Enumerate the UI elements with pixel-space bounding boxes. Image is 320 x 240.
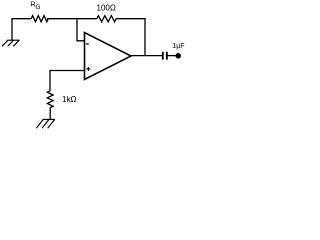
op-amp U1 <box>85 33 132 80</box>
svg-text:1µF: 1µF <box>172 43 184 50</box>
resistor R1 100 ohm <box>97 16 116 22</box>
capacitor C1 1uF <box>163 52 167 60</box>
svg-text:100Ω: 100Ω <box>97 3 116 12</box>
ground GND2 (bottom) <box>36 119 55 128</box>
wire: RG to 100-ohm resistor (through inverting junction) <box>47 18 97 20</box>
resistor R2 1k ohm (vertical) <box>47 91 53 108</box>
resistor RG <box>31 16 48 22</box>
svg-text:G: G <box>35 4 40 11</box>
op-amp minus sign <box>86 43 89 45</box>
svg-text:1kΩ: 1kΩ <box>62 95 76 104</box>
wire: R2 to GND2 <box>49 108 51 120</box>
ground GND1 (top-left) <box>2 40 20 46</box>
wire: 100-ohm to feedback corner down to output <box>116 19 145 56</box>
wire: GND1 up to input node <box>12 19 31 40</box>
output terminal dot <box>175 53 181 59</box>
wire: capacitor to output terminal <box>167 55 176 57</box>
wire: junction down to inverting input <box>77 19 85 41</box>
wire: op-amp output to capacitor <box>131 55 163 57</box>
op-amp plus sign <box>86 67 90 71</box>
wire: non-inverting input to left corner down to R2 <box>50 71 85 92</box>
